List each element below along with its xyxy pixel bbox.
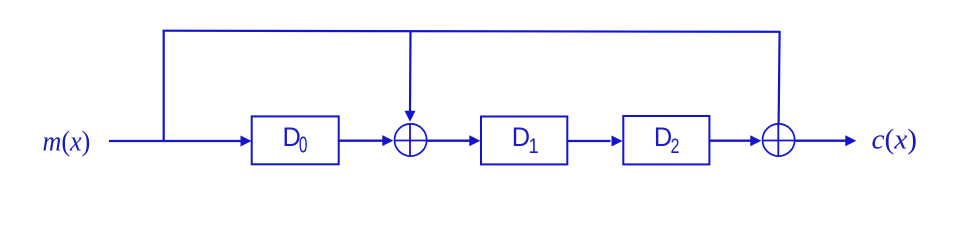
wire input m(x) to D0: [109, 140, 241, 142]
arrowhead into XOR U1 top: [405, 111, 416, 122]
arrowhead into XOR U1: [382, 135, 393, 146]
svg-text:D: D: [512, 121, 530, 152]
wire D2 to XOR U2: [709, 140, 750, 142]
arrowhead into D0: [241, 136, 252, 147]
svg-text:2: 2: [671, 135, 680, 159]
arrowhead output: [845, 135, 856, 146]
wire XOR U1 to D1: [427, 140, 470, 142]
wire D0 to XOR U1: [339, 140, 383, 142]
svg-text:m(x): m(x): [43, 124, 91, 157]
wire feedback down to XOR U2: [779, 32, 780, 125]
svg-text:D: D: [283, 121, 301, 152]
delay block D1: [481, 117, 567, 165]
svg-text:1: 1: [529, 135, 539, 159]
wire D1 to D2: [567, 140, 610, 142]
delay block D0: [252, 116, 339, 164]
delay block D2: [623, 116, 709, 164]
arrowhead into XOR U2: [750, 135, 761, 146]
wire output to c(x): [795, 140, 846, 142]
svg-text:c(x): c(x): [872, 124, 918, 156]
arrowhead into D2: [612, 136, 623, 147]
arrowhead into D1: [469, 135, 480, 146]
wire branch down to XOR U1: [409, 31, 412, 111]
node tap junction: [163, 31, 165, 141]
wire feedback top: [163, 31, 781, 32]
XOR adder U1: [395, 124, 427, 157]
XOR adder U2: [763, 124, 795, 157]
svg-text:D: D: [654, 121, 672, 152]
svg-text:0: 0: [299, 133, 308, 159]
